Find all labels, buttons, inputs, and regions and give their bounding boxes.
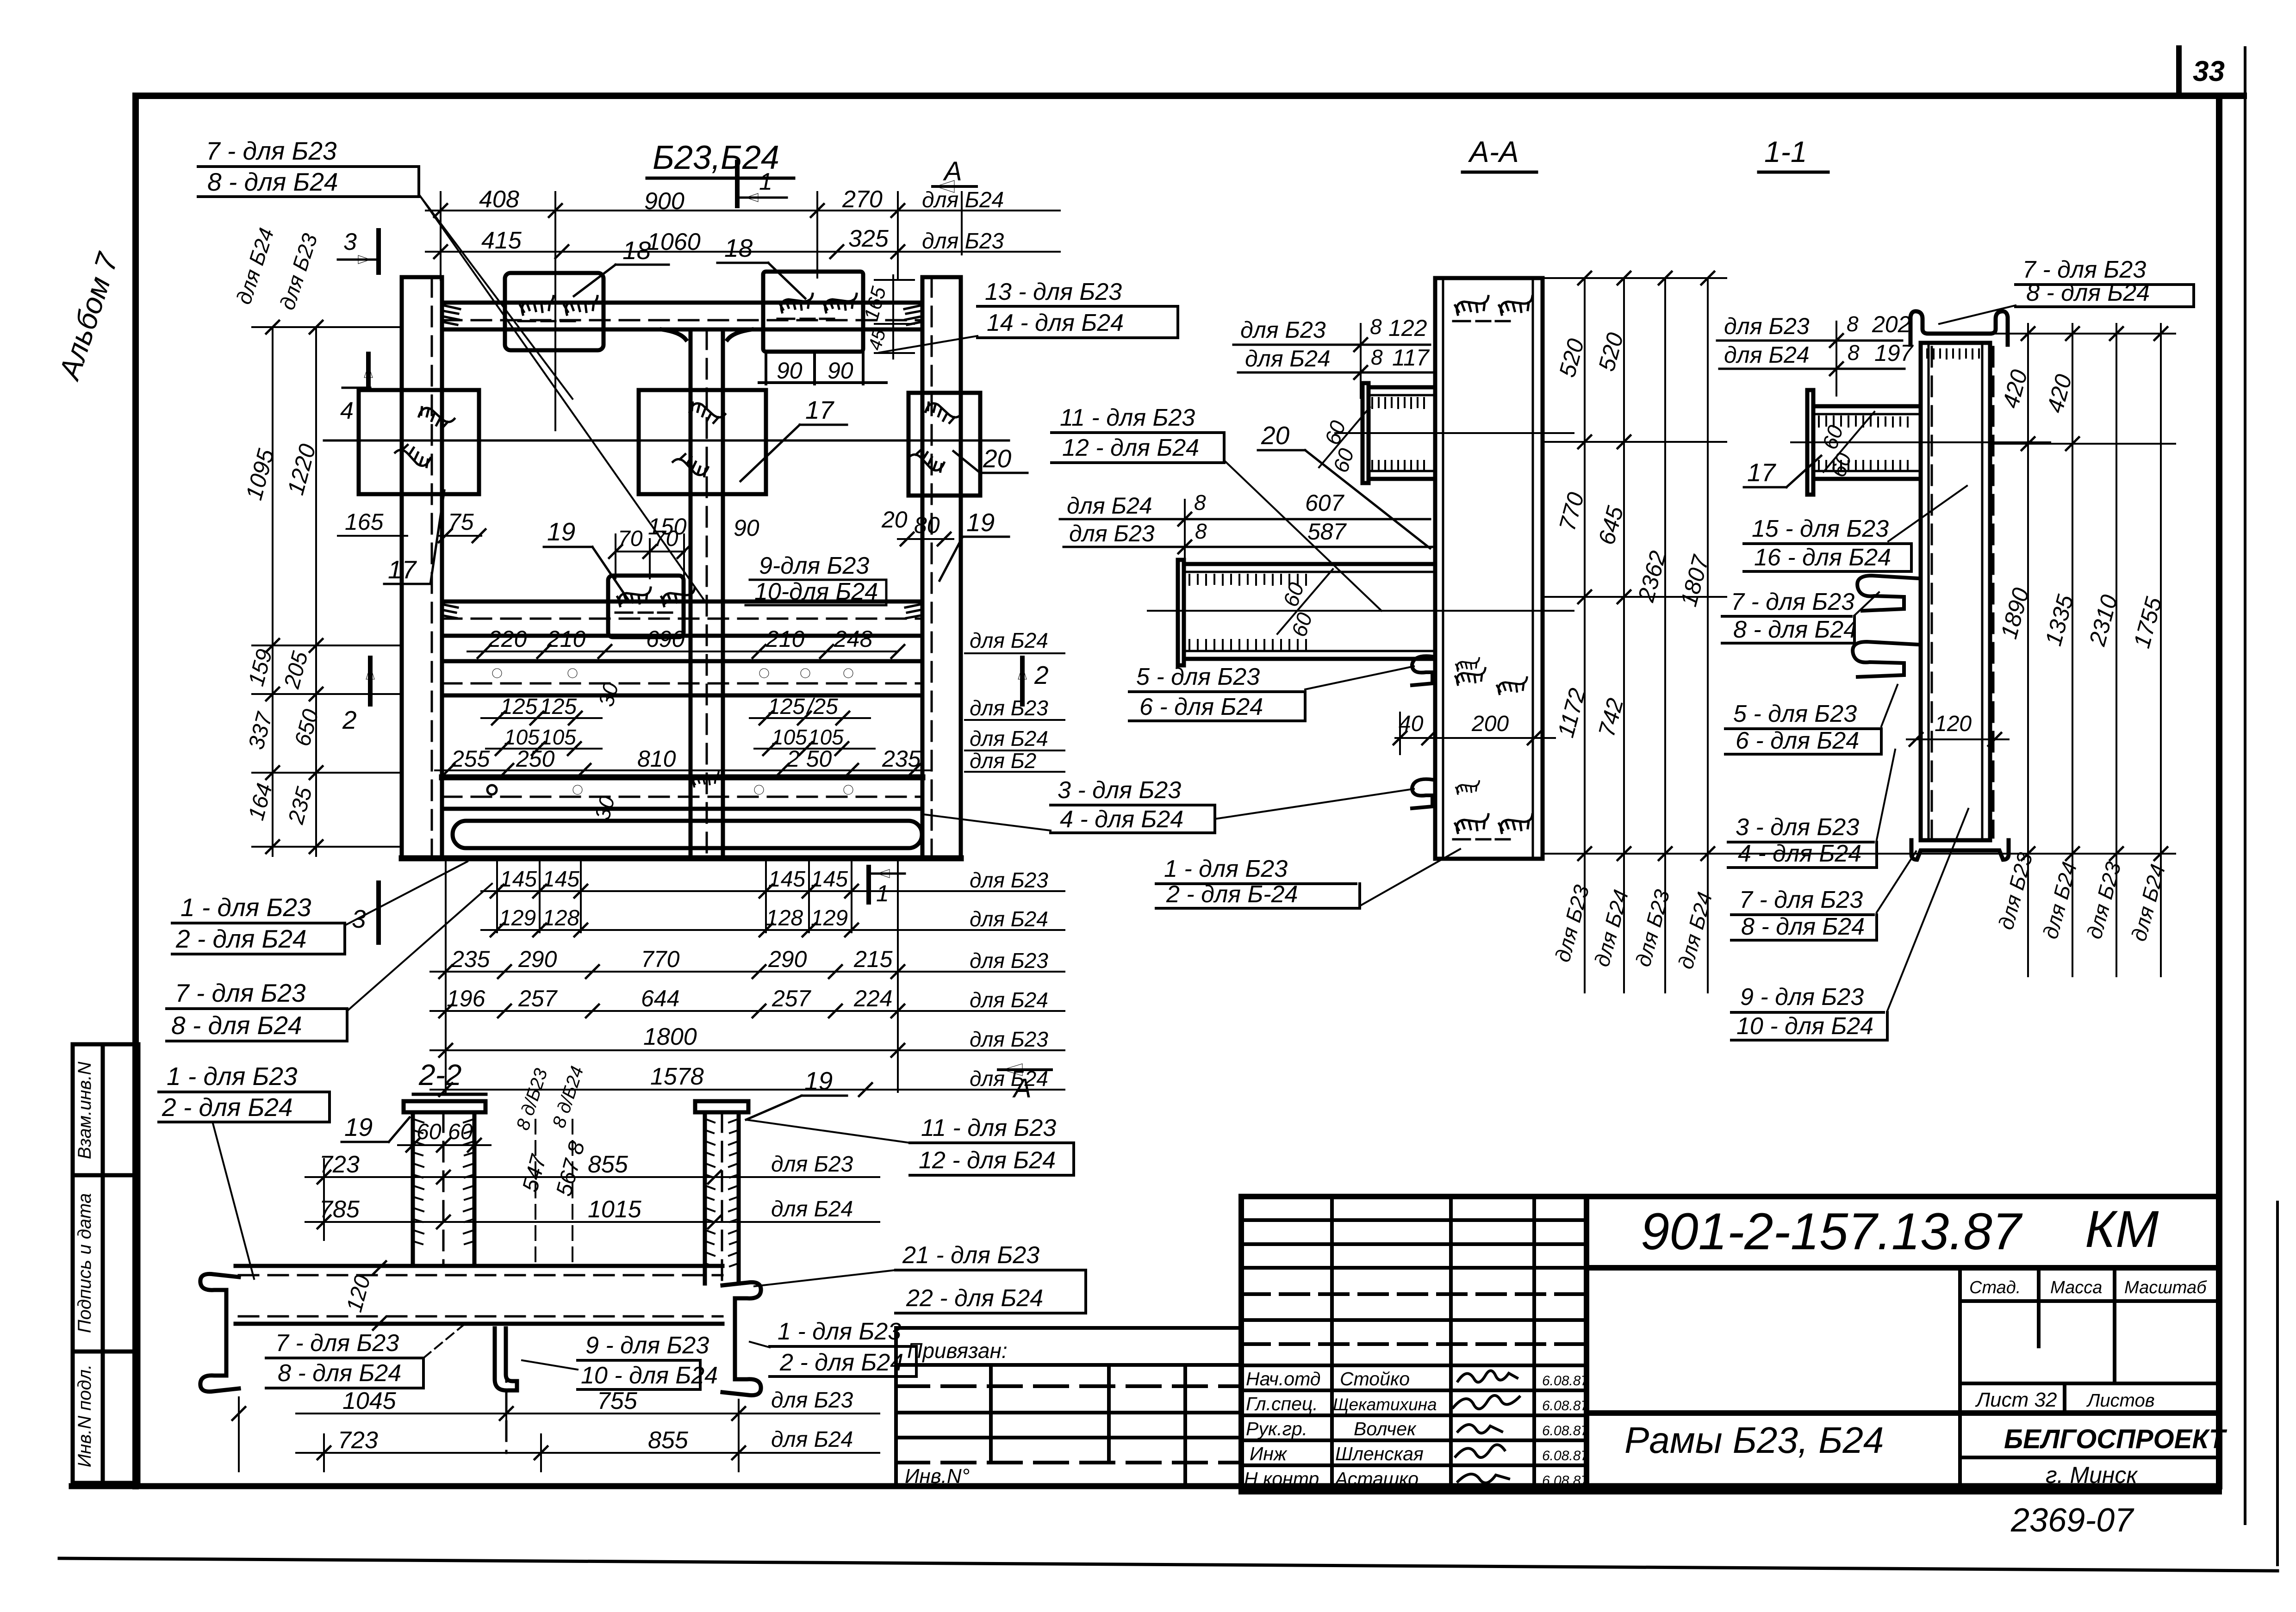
1-1 bottom foot <box>1911 840 2009 860</box>
svg-text:8 - для Б24: 8 - для Б24 <box>2026 279 2150 306</box>
svg-text:90: 90 <box>734 515 759 541</box>
svg-text:8 - для Б24: 8 - для Б24 <box>171 1011 302 1040</box>
A-A weld cluster mid <box>1456 668 1486 685</box>
svg-text:Шленская: Шленская <box>1335 1443 1424 1464</box>
svg-text:7 - для Б23: 7 - для Б23 <box>206 136 337 165</box>
A-A dims 40 200 <box>1395 713 1555 754</box>
svg-text:6.08.87: 6.08.87 <box>1542 1373 1589 1389</box>
svg-text:20: 20 <box>881 507 908 533</box>
svg-text:Н.контр.: Н.контр. <box>1244 1468 1325 1489</box>
svg-text:75: 75 <box>448 509 474 535</box>
svg-text:9 - для Б23: 9 - для Б23 <box>1740 984 1864 1011</box>
center plate <box>639 390 766 494</box>
svg-text:17: 17 <box>805 396 835 424</box>
bolt dots beam4 <box>573 785 853 794</box>
svg-text:1578: 1578 <box>650 1063 704 1090</box>
left wide plate <box>359 390 479 494</box>
beam2 top <box>442 600 922 604</box>
weld cluster gusset18 right <box>778 294 857 319</box>
svg-text:117: 117 <box>1392 345 1430 371</box>
frame right border thick <box>2216 96 2222 1486</box>
svg-text:60: 60 <box>417 1120 442 1144</box>
extension top <box>1993 333 2175 335</box>
svg-text:8 - для Б24: 8 - для Б24 <box>1733 616 1857 643</box>
middle post dashed <box>706 329 708 858</box>
svg-text:129: 129 <box>811 906 848 930</box>
svg-text:11 - для Б23: 11 - для Б23 <box>921 1115 1056 1141</box>
A-A horizontal axis through stubs <box>1335 432 1574 434</box>
svg-text:для Б23: для Б23 <box>1240 317 1326 343</box>
svg-text:22 - для Б24: 22 - для Б24 <box>906 1285 1043 1312</box>
svg-text:70: 70 <box>618 527 643 551</box>
dim row 1800 <box>430 1049 1064 1051</box>
svg-text:/25: /25 <box>806 694 838 719</box>
svg-text:для Б23: для Б23 <box>771 1152 853 1177</box>
svg-text:Щекатихина: Щекатихина <box>1333 1395 1437 1414</box>
right plate <box>908 393 980 496</box>
right column <box>922 277 961 858</box>
svg-text:1220: 1220 <box>282 441 321 497</box>
stamp column box <box>73 1044 138 1483</box>
svg-text:33: 33 <box>2193 56 2225 87</box>
svg-text:255: 255 <box>451 746 490 772</box>
1-1 hat weld comb <box>1921 349 1979 359</box>
svg-text:Инв.N°: Инв.N° <box>905 1465 970 1488</box>
section mark 1 bottom <box>866 867 871 902</box>
2-2 post2 body <box>703 1112 707 1283</box>
2-2 post1 weld combs <box>415 1120 736 1266</box>
svg-text:11 - для Б23: 11 - для Б23 <box>1060 404 1195 431</box>
2-2 beam bottom <box>236 1322 722 1326</box>
svg-text:6.08.87: 6.08.87 <box>1542 1423 1589 1438</box>
A-A top stub end plate <box>1363 383 1369 483</box>
svg-text:для Б24: для Б24 <box>231 225 279 307</box>
2-2 post1 cap <box>404 1101 485 1112</box>
sheet corner vertical bottom right <box>2276 1202 2279 1565</box>
svg-text:Стойко: Стойко <box>1340 1368 1410 1389</box>
frame top border <box>136 93 2244 99</box>
svg-text:6.08.87: 6.08.87 <box>1542 1448 1589 1463</box>
svg-text:257: 257 <box>518 986 558 1011</box>
svg-text:855: 855 <box>588 1151 628 1178</box>
svg-text:17: 17 <box>1747 458 1777 487</box>
svg-text:248: 248 <box>834 626 873 652</box>
weld combs top beam ends <box>442 305 921 618</box>
svg-text:3: 3 <box>343 229 357 255</box>
svg-text:для Б23: для Б23 <box>970 696 1048 720</box>
svg-text:для Б24: для Б24 <box>771 1197 853 1221</box>
svg-text:для Б23: для Б23 <box>1993 850 2037 932</box>
title row divider <box>1587 1410 1960 1416</box>
svg-text:145: 145 <box>542 867 579 892</box>
bolt dots beam3 <box>492 669 853 678</box>
svg-text:235: 235 <box>451 946 490 972</box>
svg-text:2369-07: 2369-07 <box>2010 1502 2134 1539</box>
list row <box>1960 1382 2219 1385</box>
svg-text:8: 8 <box>1371 345 1383 369</box>
svg-text:для Б24: для Б24 <box>1589 887 1633 969</box>
svg-text:для Б24: для Б24 <box>1067 493 1152 519</box>
1-1 axis through spool <box>1791 441 2050 443</box>
svg-text:1 - для Б23: 1 - для Б23 <box>1164 856 1288 882</box>
svg-text:КМ: КМ <box>2085 1200 2159 1258</box>
svg-text:15 - для Б23: 15 - для Б23 <box>1752 515 1889 542</box>
svg-text:1060: 1060 <box>647 229 701 255</box>
svg-text:2 50: 2 50 <box>786 746 832 772</box>
top beam dashed axis <box>442 319 922 322</box>
dim line row2 <box>426 251 1060 253</box>
svg-text:А: А <box>943 156 962 186</box>
svg-text:1 - для Б23: 1 - для Б23 <box>180 893 311 922</box>
top dim extension lines <box>440 192 442 280</box>
svg-text:325: 325 <box>848 225 889 252</box>
svg-text:для Б23: для Б23 <box>275 230 322 313</box>
svg-text:19: 19 <box>804 1066 833 1095</box>
1-1 spool weld combs <box>1819 416 1908 470</box>
svg-text:90: 90 <box>777 358 803 384</box>
svg-text:для Б24: для Б24 <box>1673 889 1717 972</box>
signature rows <box>1241 1364 1587 1367</box>
A-A column outer <box>1435 278 1543 859</box>
beam4 top thick <box>442 775 922 781</box>
col date <box>1584 1197 1589 1492</box>
svg-text:4: 4 <box>340 397 354 424</box>
svg-text:Масса: Масса <box>2050 1278 2102 1297</box>
svg-text:3 - для Б23: 3 - для Б23 <box>1058 777 1181 804</box>
A arrow bottom <box>998 1068 1052 1071</box>
svg-text:Подпись и дата: Подпись и дата <box>75 1193 95 1333</box>
svg-text:900: 900 <box>644 188 684 215</box>
1-1 dashed centerlines <box>1932 347 1993 837</box>
stamp divider 2 <box>73 1350 138 1354</box>
svg-text:для Б23: для Б23 <box>2082 859 2125 942</box>
svg-text:для Б24: для Б24 <box>2126 862 2170 944</box>
section mark 2 right <box>1020 658 1025 704</box>
svg-text:145: 145 <box>768 867 805 892</box>
svg-text:7 - для Б23: 7 - для Б23 <box>1739 887 1863 913</box>
svg-text:Асташко: Асташко <box>1334 1468 1419 1489</box>
beam3 dashed <box>442 682 922 685</box>
svg-text:1: 1 <box>759 168 772 195</box>
title underline <box>647 177 794 180</box>
extension bottom long <box>1543 853 2175 855</box>
svg-text:210: 210 <box>547 626 586 652</box>
2-2 dim row 723 855 <box>305 1159 879 1240</box>
1-1 column inner lines <box>1928 343 1930 840</box>
svg-text:250: 250 <box>516 746 555 772</box>
middle post top fillets <box>662 329 752 340</box>
svg-text:БЕЛГОСПРОЕКТ: БЕЛГОСПРОЕКТ <box>2004 1424 2228 1454</box>
dim 165 45 right of gusset <box>875 275 914 359</box>
extension mid <box>1543 441 1726 443</box>
svg-text:220: 220 <box>488 626 527 652</box>
weld cluster right plate <box>923 395 961 429</box>
2-2 bottom dim rows <box>239 1397 879 1471</box>
left dim vertical line1 <box>272 327 274 856</box>
sheet edge right thin <box>2244 48 2246 1524</box>
svg-text:для Б23: для Б23 <box>970 949 1048 973</box>
svg-text:8 - для Б24: 8 - для Б24 <box>278 1360 401 1387</box>
svg-text:18: 18 <box>724 234 753 262</box>
svg-text:6.08.87: 6.08.87 <box>1542 1398 1589 1414</box>
svg-text:Лист 32: Лист 32 <box>1975 1389 2057 1411</box>
svg-text:587: 587 <box>1307 519 1347 545</box>
A-A lower stub flange top <box>1184 562 1435 566</box>
top beam top flange <box>442 301 922 305</box>
dashed hidden lines <box>432 277 932 858</box>
svg-text:Взам.инв.N: Взам.инв.N <box>75 1062 95 1159</box>
svg-text:1 - для Б23: 1 - для Б23 <box>167 1062 298 1091</box>
left dim top extension <box>252 326 403 328</box>
svg-text:для Б24: для Б24 <box>970 628 1048 652</box>
middle post right edge <box>721 329 725 858</box>
svg-text:4 - для Б24: 4 - для Б24 <box>1060 806 1183 833</box>
svg-text:4 - для Б24: 4 - для Б24 <box>1738 840 1861 867</box>
right column dashed <box>931 277 933 858</box>
svg-text:19: 19 <box>966 508 995 537</box>
svg-text:19: 19 <box>547 517 575 546</box>
svg-text:18: 18 <box>622 236 651 265</box>
svg-text:для Б24: для Б24 <box>922 188 1004 212</box>
top beam bottom flange <box>442 328 922 332</box>
svg-text:196: 196 <box>447 986 485 1011</box>
svg-text:для Б23: для Б23 <box>1724 313 1810 339</box>
svg-text:770: 770 <box>641 946 680 972</box>
privyazan grid top <box>896 1363 1241 1367</box>
70 70 dim above gusset19 <box>616 534 685 578</box>
beam2 dashed <box>442 618 922 620</box>
2-2 middle small channel <box>495 1328 517 1390</box>
svg-text:Привязан:: Привязан: <box>907 1339 1008 1363</box>
svg-text:200: 200 <box>1471 712 1509 736</box>
svg-text:128: 128 <box>542 906 579 930</box>
svg-text:8 - для Б24: 8 - для Б24 <box>207 167 338 196</box>
dim row 196-257 <box>430 1010 1064 1012</box>
svg-text:197: 197 <box>1874 340 1914 366</box>
svg-text:20: 20 <box>1261 421 1290 450</box>
svg-text:120: 120 <box>342 1272 375 1314</box>
90 90 dims below right gusset <box>759 352 886 384</box>
svg-text:607: 607 <box>1305 490 1345 516</box>
svg-text:205: 205 <box>280 649 313 691</box>
svg-text:145: 145 <box>811 867 848 892</box>
dim row 129 <box>481 929 1064 931</box>
svg-text:901-2-157.13.87: 901-2-157.13.87 <box>1641 1203 2023 1260</box>
svg-text:10-для Б24: 10-для Б24 <box>754 578 878 605</box>
2-2 dashed stiffener lines <box>535 1120 572 1266</box>
svg-text:8: 8 <box>1847 312 1859 336</box>
svg-text:19: 19 <box>344 1113 373 1141</box>
svg-text:2 - для Б24: 2 - для Б24 <box>779 1349 903 1376</box>
svg-text:для Б23: для Б23 <box>1550 882 1593 965</box>
weld cluster left plate <box>417 400 454 434</box>
svg-text:Волчек: Волчек <box>1354 1418 1417 1439</box>
svg-text:для Б23: для Б23 <box>771 1388 853 1413</box>
left column <box>402 277 442 858</box>
A-A top stub flange bottom <box>1369 470 1435 472</box>
svg-text:Альбом 7: Альбом 7 <box>52 248 124 385</box>
svg-text:235: 235 <box>284 784 317 827</box>
row 220 210 690 210 248 <box>467 651 898 652</box>
svg-text:415: 415 <box>481 227 522 254</box>
svg-text:12 - для Б24: 12 - для Б24 <box>919 1147 1056 1174</box>
svg-text:для Б24: для Б24 <box>970 726 1048 750</box>
big code cell bottom <box>1587 1265 2219 1271</box>
A-A column inner flange lines <box>1442 278 1444 859</box>
weld cluster gusset18 left <box>518 296 597 321</box>
dim line row1 <box>426 210 1060 211</box>
svg-text:А-А: А-А <box>1468 135 1519 168</box>
section mark 1 top <box>735 162 740 206</box>
svg-text:8: 8 <box>1848 341 1860 365</box>
svg-text:для Б24: для Б24 <box>2038 859 2081 942</box>
svg-text:8: 8 <box>1194 490 1206 515</box>
svg-text:125: 125 <box>500 694 537 719</box>
frame bottom border <box>72 1483 2219 1489</box>
svg-text:80: 80 <box>914 512 940 538</box>
svg-text:567 8: 567 8 <box>552 1139 590 1199</box>
A-A lower stub flange bottom <box>1184 650 1435 652</box>
svg-text:125: 125 <box>540 694 577 719</box>
svg-text:2 - для Б24: 2 - для Б24 <box>162 1093 293 1122</box>
svg-text:290: 290 <box>518 946 557 972</box>
extension mid <box>1995 443 2175 445</box>
svg-text:для Б23: для Б23 <box>970 1027 1048 1051</box>
svg-text:855: 855 <box>648 1427 689 1454</box>
svg-text:270: 270 <box>842 186 883 213</box>
svg-text:10 - для Б24: 10 - для Б24 <box>1736 1013 1873 1040</box>
svg-text:60: 60 <box>1287 609 1317 639</box>
bottom chord bottom thick <box>402 856 961 862</box>
dates <box>1542 1373 1589 1488</box>
stamp divider 1 <box>73 1173 138 1178</box>
thin rows <box>1241 1218 1587 1222</box>
weld cluster bottom post crossing <box>692 772 719 787</box>
svg-text:165: 165 <box>345 509 384 535</box>
svg-text:1-1: 1-1 <box>1764 135 1807 168</box>
svg-text:7 - для Б23: 7 - для Б23 <box>175 979 306 1007</box>
A-A stub weld combs <box>1189 398 1424 650</box>
svg-text:6 - для Б24: 6 - для Б24 <box>1736 727 1859 754</box>
2-2 post2 cap <box>695 1101 748 1112</box>
row 255 250 810 250 235 <box>435 770 1064 772</box>
svg-text:Рук.гр.: Рук.гр. <box>1246 1418 1307 1439</box>
A-A right dim stack <box>1543 278 2175 992</box>
sheet bottom trim line <box>59 1558 2277 1571</box>
svg-text:Инж: Инж <box>1250 1443 1288 1464</box>
svg-text:40: 40 <box>1399 712 1424 736</box>
svg-text:125: 125 <box>768 694 805 719</box>
svg-text:8: 8 <box>1370 315 1382 339</box>
svg-text:8 - для Б24: 8 - для Б24 <box>1741 913 1865 940</box>
privyazan outline <box>896 1328 1241 1486</box>
frame left border <box>132 96 139 1486</box>
svg-text:723: 723 <box>319 1151 360 1178</box>
svg-text:1015: 1015 <box>588 1196 642 1223</box>
extension top <box>1543 277 1726 279</box>
beam3 bottom <box>442 694 922 698</box>
svg-text:785: 785 <box>319 1196 360 1223</box>
dim row 1578 <box>430 1089 1064 1091</box>
2-2 left channel <box>200 1274 239 1391</box>
svg-text:2 - для Б24: 2 - для Б24 <box>175 924 307 953</box>
svg-text:755: 755 <box>597 1388 638 1414</box>
extension verticals below plan <box>445 861 447 1092</box>
svg-text:для Б23: для Б23 <box>1630 887 1674 969</box>
svg-text:90: 90 <box>828 358 853 384</box>
svg-text:для Б24: для Б24 <box>771 1427 853 1452</box>
svg-text:г. Минск: г. Минск <box>2046 1462 2138 1488</box>
svg-text:650: 650 <box>290 707 324 749</box>
svg-text:для Б24: для Б24 <box>1245 346 1331 372</box>
svg-text:2: 2 <box>342 706 357 734</box>
weld cluster center plate <box>687 395 725 429</box>
svg-text:7 - для Б23: 7 - для Б23 <box>275 1330 399 1357</box>
svg-text:Инв.N подл.: Инв.N подл. <box>75 1364 95 1468</box>
svg-text:129: 129 <box>499 906 536 930</box>
svg-text:Листов: Листов <box>2086 1390 2155 1411</box>
svg-text:8: 8 <box>1195 519 1207 543</box>
svg-text:1045: 1045 <box>342 1388 397 1414</box>
1-1 top hat profile <box>1910 311 2008 345</box>
2-2 beam top <box>236 1264 722 1268</box>
svg-text:Рамы Б23, Б24: Рамы Б23, Б24 <box>1624 1420 1884 1461</box>
middle post left edge <box>689 329 693 858</box>
svg-text:А: А <box>1012 1073 1032 1104</box>
svg-text:60: 60 <box>1278 579 1308 609</box>
svg-text:5 - для Б23: 5 - для Б23 <box>1733 701 1857 727</box>
A-A top stub flange top <box>1369 385 1435 390</box>
beam2 bottom <box>442 634 922 638</box>
2-2 right channel <box>722 1282 761 1395</box>
svg-text:210: 210 <box>765 626 805 652</box>
svg-text:150: 150 <box>648 514 687 539</box>
svg-text:2-2: 2-2 <box>418 1058 462 1091</box>
A-A lower stub end plate <box>1178 560 1184 665</box>
svg-text:Масштаб: Масштаб <box>2124 1278 2207 1297</box>
svg-text:10 - для Б24: 10 - для Б24 <box>581 1362 718 1389</box>
signature table texts <box>1244 1368 1437 1489</box>
svg-text:2: 2 <box>1034 661 1049 689</box>
svg-text:для Б24: для Б24 <box>970 988 1048 1012</box>
1-1 spool flange top <box>1813 404 1921 409</box>
stad masa masht row <box>1960 1266 2219 1270</box>
svg-text:408: 408 <box>479 186 519 213</box>
beam4 line2 <box>442 807 922 811</box>
svg-text:257: 257 <box>772 986 812 1011</box>
svg-text:для Б23: для Б23 <box>1069 521 1155 546</box>
signatures squiggles <box>1453 1370 1519 1483</box>
svg-text:12 - для Б24: 12 - для Б24 <box>1062 434 1199 461</box>
left dim vertical line2 <box>315 327 317 856</box>
svg-text:13 - для Б23: 13 - для Б23 <box>985 279 1122 305</box>
1-1 right dim stack <box>1993 324 2175 976</box>
svg-text:2 - для Б-24: 2 - для Б-24 <box>1166 881 1298 908</box>
section mark 3 left <box>376 230 381 273</box>
svg-text:644: 644 <box>641 986 679 1011</box>
A-A clip welds <box>1456 658 1479 671</box>
leader 7-8 to beam <box>419 194 572 399</box>
svg-text:810: 810 <box>637 746 676 772</box>
svg-text:8 д/Б23: 8 д/Б23 <box>513 1066 552 1133</box>
col role <box>1330 1197 1334 1492</box>
svg-text:1: 1 <box>876 880 889 906</box>
dim row 235-290 <box>430 971 1064 973</box>
A-A weld cluster bottom <box>1453 814 1532 839</box>
svg-text:16 - для Б24: 16 - для Б24 <box>1754 544 1891 571</box>
svg-text:60: 60 <box>448 1120 473 1144</box>
svg-text:20: 20 <box>983 444 1012 473</box>
